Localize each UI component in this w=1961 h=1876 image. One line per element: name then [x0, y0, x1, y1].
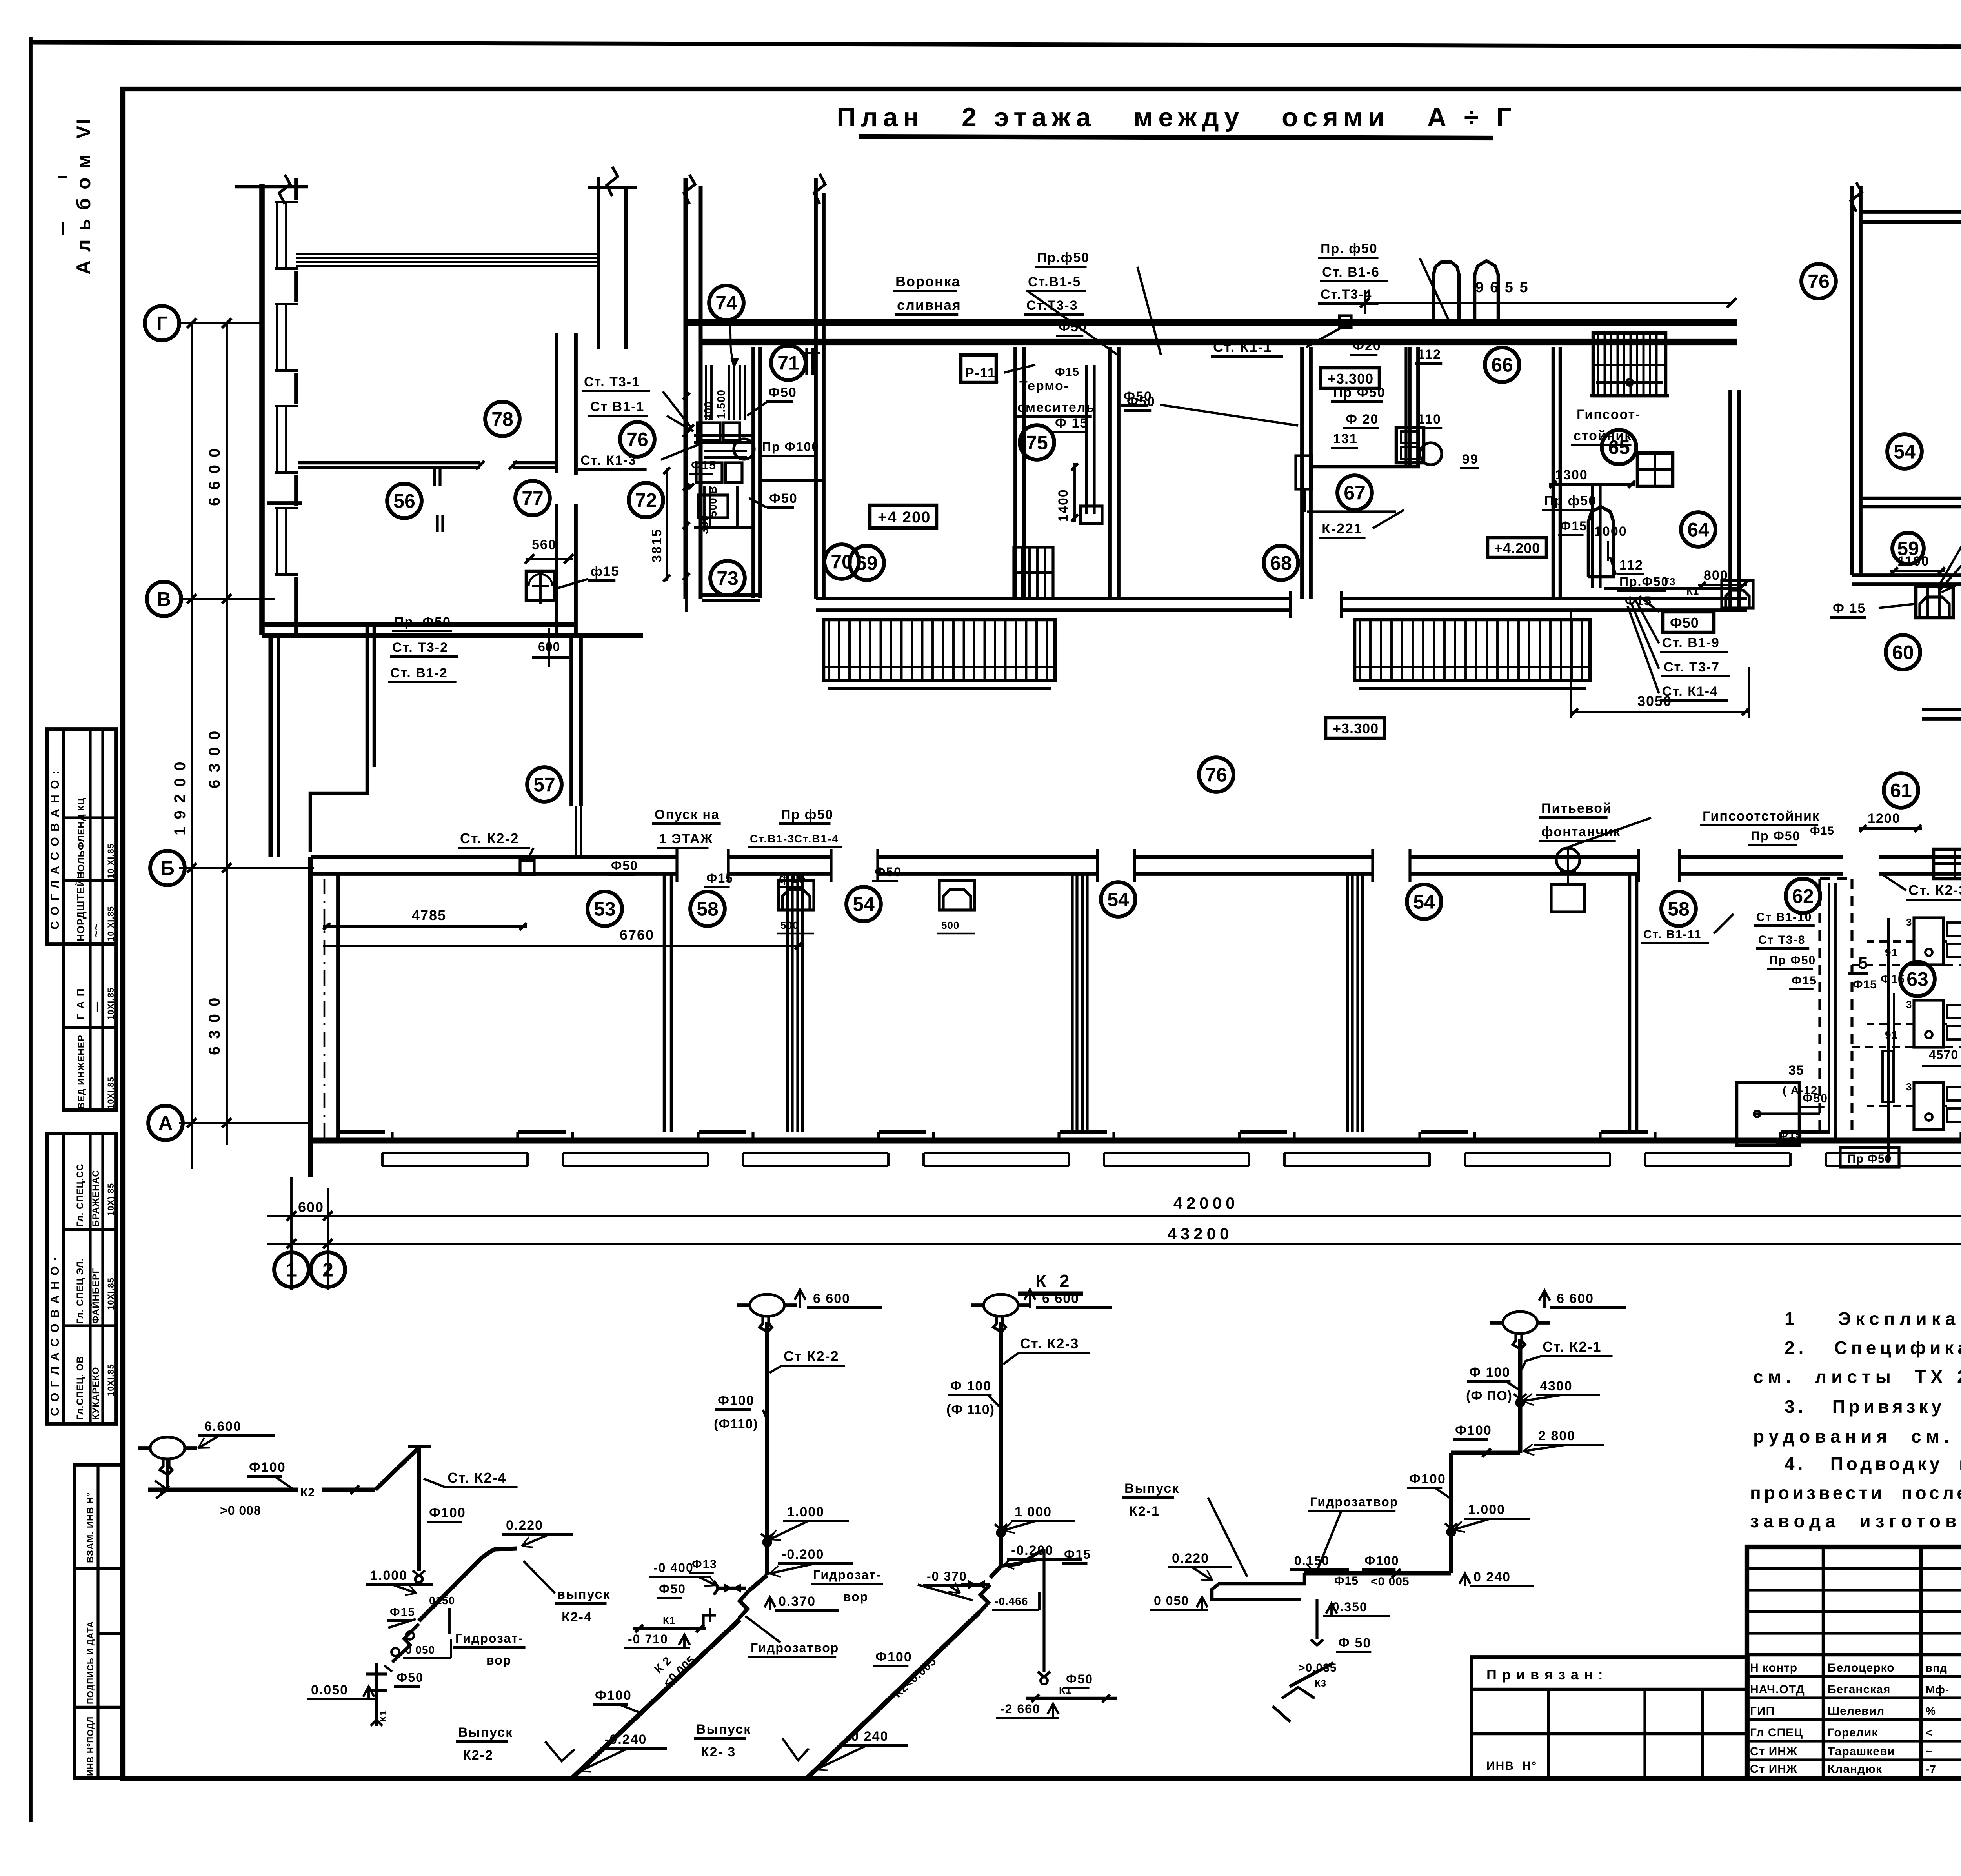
svg-text:Ф 100: Ф 100 — [950, 1379, 991, 1394]
vestibule 57 left wall — [269, 635, 273, 857]
corridor top wall lower line — [702, 339, 1737, 345]
K2-3 base valve bowtie — [990, 1566, 1001, 1578]
K2-4 main horizontal pipe — [148, 1488, 298, 1492]
svg-text:С О Г Л А С О В А Н О ·: С О Г Л А С О В А Н О · — [49, 1256, 62, 1416]
sanitary pipes cluster rooms 71-72 — [697, 423, 720, 440]
svg-text:ПОДПИСЬ И ДАТА: ПОДПИСЬ И ДАТА — [85, 1621, 95, 1704]
svg-text:58: 58 — [697, 898, 719, 920]
svg-text:Ст В1-1: Ст В1-1 — [590, 399, 644, 414]
svg-text:74: 74 — [715, 292, 737, 314]
bottom wall of upper-left block / axis V wall — [262, 622, 576, 627]
west wall room 69 — [814, 347, 818, 599]
beam band lines — [296, 253, 598, 255]
svg-text:6 600: 6 600 — [1042, 1291, 1079, 1306]
partition 58|54 plumbing wall — [786, 874, 789, 1132]
svg-text:К-221: К-221 — [1322, 520, 1363, 537]
axis line V — [179, 598, 275, 600]
wall 72 zone east — [751, 347, 755, 598]
left wall window sills — [276, 202, 278, 269]
svg-text:произвести после его устано: произвести после его установки согласно … — [1750, 1483, 1961, 1503]
axis circle 2 — [311, 1252, 345, 1287]
svg-text:К2: К2 — [300, 1486, 315, 1499]
svg-text:(Ф110): (Ф110) — [714, 1417, 758, 1432]
bottom wall right block — [1852, 573, 1961, 577]
svg-text:ВЗАМ. ИНВ Н°: ВЗАМ. ИНВ Н° — [85, 1492, 96, 1563]
svg-text:0.220: 0.220 — [506, 1518, 543, 1533]
K2-2 trap zigzag — [739, 1591, 749, 1618]
svg-text:Пр.ф50: Пр.ф50 — [1037, 250, 1090, 265]
svg-text:Ф 50: Ф 50 — [1338, 1636, 1371, 1650]
K2-2 base branch with valve — [749, 1575, 767, 1591]
window tick marks — [433, 468, 436, 486]
upper-left block outer walls — [259, 184, 265, 635]
sink fixture 64 — [1722, 580, 1753, 608]
svg-text:Ст. К2-3: Ст. К2-3 — [1908, 882, 1961, 898]
svg-text:Гипсоотстойник: Гипсоотстойник — [1703, 809, 1820, 824]
K2-3 riser stack — [999, 1322, 1003, 1566]
K2-4 K1 riser — [375, 1663, 378, 1726]
svg-text:Выпуск: Выпуск — [696, 1722, 751, 1737]
svg-text:75: 75 — [1026, 432, 1048, 454]
svg-text:Ф100: Ф100 — [595, 1688, 632, 1703]
balcony hatch west — [824, 620, 1055, 681]
svg-text:110: 110 — [1417, 412, 1441, 427]
boiler room 67 — [1433, 262, 1459, 326]
svg-text:Кландюк: Кландюк — [1828, 1763, 1882, 1776]
svg-text:Ф20: Ф20 — [1353, 338, 1381, 353]
svg-text:П р и в я з а н :: П р и в я з а н : — [1486, 1667, 1604, 1683]
svg-text:Ст Т3-8: Ст Т3-8 — [1758, 933, 1805, 946]
axis circle B — [150, 851, 185, 885]
stamp block 1 soglasovano — [47, 729, 116, 944]
svg-text:99: 99 — [1462, 452, 1479, 467]
K2-3 outfall diagonal — [806, 1612, 980, 1779]
privyazan table — [1472, 1657, 1748, 1780]
svg-text:Ф 100: Ф 100 — [1469, 1365, 1510, 1380]
svg-text:Т3: Т3 — [1663, 576, 1675, 588]
svg-text:Пр Ф100: Пр Ф100 — [762, 440, 819, 454]
svg-text:Ст ИНЖ: Ст ИНЖ — [1750, 1763, 1797, 1776]
room circle 68 — [1264, 546, 1298, 580]
svg-text:Ст.В1-4: Ст.В1-4 — [794, 833, 839, 845]
svg-text:54: 54 — [1413, 891, 1435, 913]
svg-text:ФАЙНБЕРГ: ФАЙНБЕРГ — [90, 1268, 101, 1324]
svg-text:10X) 85: 10X) 85 — [106, 1183, 116, 1216]
wall under stair — [1590, 394, 1669, 398]
svg-text:73: 73 — [717, 568, 739, 590]
room circle 62 — [1786, 879, 1820, 913]
svg-text:35: 35 — [1788, 1063, 1804, 1078]
svg-text:2. Спецификацию технологиче: 2. Спецификацию технологического оборудо… — [1785, 1337, 1961, 1358]
svg-text:К 2: К 2 — [1035, 1271, 1073, 1291]
svg-text:62: 62 — [1792, 885, 1814, 907]
svg-text:Ф 20: Ф 20 — [1346, 412, 1379, 427]
break mark wall A top — [607, 167, 618, 196]
svg-text:10 XI.85: 10 XI.85 — [106, 906, 116, 941]
svg-text:Р-11: Р-11 — [965, 366, 996, 380]
dashed service duct room 62 — [1818, 879, 1821, 1137]
svg-text:Ст К2-2: Ст К2-2 — [784, 1348, 839, 1364]
dashed pipes lab — [1852, 964, 1961, 966]
svg-text:Н контр: Н контр — [1750, 1661, 1797, 1674]
svg-text:Ф15: Ф15 — [1779, 1128, 1803, 1141]
K2-1 dim 4300 — [1517, 1399, 1524, 1406]
svg-text:Ф50: Ф50 — [1059, 320, 1087, 335]
title block outline — [1747, 1547, 1961, 1779]
svg-text:Ф15: Ф15 — [1334, 1574, 1359, 1587]
east wall room 75 — [1108, 347, 1112, 599]
sheet outer border top — [31, 42, 1961, 48]
wall stub room56 left — [267, 501, 302, 505]
svg-text:1: 1 — [286, 1259, 297, 1281]
svg-text:3. Привязку и расстановку: 3. Привязку и расстановку технологическо… — [1785, 1396, 1961, 1417]
svg-text:Пр.Ф50: Пр.Ф50 — [1619, 575, 1669, 589]
svg-text:Ф50: Ф50 — [875, 865, 902, 879]
svg-text:57: 57 — [533, 774, 555, 796]
svg-text:Горелик: Горелик — [1828, 1726, 1878, 1739]
bottom dim line 42000 — [267, 1215, 1961, 1217]
svg-text:Ф13: Ф13 — [692, 1558, 717, 1571]
K2-4 drain to K1 — [392, 1624, 419, 1662]
wall west of room 65 block — [1552, 347, 1555, 599]
window tick on corridor wall — [805, 348, 808, 375]
dim 4785 — [323, 925, 527, 928]
lower wing top wall segments — [311, 855, 677, 859]
inner wall between rooms 54 — [1861, 497, 1961, 500]
svg-text:Ф50: Ф50 — [1803, 1092, 1828, 1105]
svg-text:смеситель: смеситель — [1017, 400, 1095, 415]
svg-text:Пр. Ф50: Пр. Ф50 — [394, 615, 451, 630]
label Pr F50 bottom — [1840, 1148, 1899, 1167]
svg-text:НАЧ.ОТД: НАЧ.ОТД — [1750, 1683, 1805, 1696]
sheet outer border left — [29, 37, 33, 1822]
svg-text:66: 66 — [1491, 354, 1513, 376]
partition 54|54 b — [1346, 874, 1349, 1132]
svg-text:Гидрозат-: Гидрозат- — [455, 1631, 524, 1645]
K2-1 vertical drop — [1449, 1453, 1453, 1573]
break mark left wall top — [279, 175, 290, 204]
svg-text:72: 72 — [635, 489, 657, 511]
svg-text:4300: 4300 — [1540, 1379, 1573, 1394]
east wall rooms 64 — [1728, 390, 1732, 610]
stairwell hatch block — [1593, 333, 1666, 396]
svg-text:Тарашкеви: Тарашкеви — [1828, 1745, 1895, 1758]
svg-text:Ф100: Ф100 — [875, 1650, 912, 1665]
K2-4 outfall to 0.220 — [419, 1548, 517, 1621]
svg-text:1400: 1400 — [1056, 489, 1071, 522]
svg-text:-0.200: -0.200 — [782, 1547, 824, 1562]
svg-text:Ст. К2-4: Ст. К2-4 — [448, 1470, 506, 1486]
svg-text:1300: 1300 — [1555, 468, 1588, 482]
svg-text:1 9 2 0 0: 1 9 2 0 0 — [171, 760, 189, 835]
dim 1300 — [1549, 483, 1635, 486]
svg-text:-0 240: -0 240 — [846, 1729, 888, 1744]
svg-text:План 2 этажа между осями: План 2 этажа между осями А ÷ Г — [837, 102, 1516, 132]
svg-text:Ф15: Ф15 — [1560, 519, 1587, 533]
K2-1 level 1.000 — [1448, 1528, 1455, 1536]
svg-text:300: 300 — [698, 515, 710, 534]
K2-2 outfall diagonal — [571, 1619, 740, 1779]
svg-text:Белоцерко: Белоцерко — [1828, 1661, 1895, 1674]
svg-text:112: 112 — [1619, 558, 1643, 573]
svg-text:Гл. СПЕЦ ЭЛ.: Гл. СПЕЦ ЭЛ. — [75, 1258, 85, 1324]
break mark right block wall — [1851, 182, 1862, 212]
svg-text:(Ф ПО): (Ф ПО) — [1466, 1388, 1512, 1403]
axis circle A — [148, 1106, 183, 1140]
svg-text:6 600: 6 600 — [1557, 1291, 1594, 1306]
svg-text:69: 69 — [856, 552, 878, 574]
room circle 54 lw1 — [846, 887, 881, 921]
room circle 60 — [1886, 635, 1920, 670]
svg-text:Ф15: Ф15 — [691, 459, 717, 472]
svg-text:43200: 43200 — [1168, 1225, 1233, 1243]
lab benches room 63 grid — [1914, 918, 1943, 965]
svg-text:Ст. К1-3: Ст. К1-3 — [580, 453, 637, 468]
level mark +3.300 room 67 — [1321, 368, 1379, 388]
svg-text:Пр. ф50: Пр. ф50 — [1321, 241, 1378, 256]
axis circle V — [147, 582, 181, 616]
stair arrow — [1596, 381, 1663, 384]
svg-text:-7: -7 — [1926, 1763, 1936, 1775]
svg-text:Беганская: Беганская — [1828, 1683, 1890, 1696]
level mark +4 200 room 69 — [870, 505, 937, 528]
svg-text:-0 400: -0 400 — [653, 1561, 694, 1575]
svg-text:В: В — [157, 588, 171, 610]
svg-text:К1: К1 — [1686, 585, 1699, 597]
svg-text:53: 53 — [594, 898, 616, 920]
svg-text:ИНВ Н°ПОДЛ: ИНВ Н°ПОДЛ — [85, 1716, 95, 1776]
svg-text:91: 91 — [1885, 946, 1898, 959]
K2-4 valve on riser — [415, 1576, 422, 1583]
svg-text:К1: К1 — [378, 1710, 389, 1722]
svg-text:Ст ИНЖ: Ст ИНЖ — [1750, 1745, 1797, 1758]
svg-text:+3.300: +3.300 — [1333, 721, 1379, 737]
svg-text:А: А — [158, 1112, 173, 1134]
riser K2-4 vent stack — [150, 1437, 185, 1459]
svg-text:Ст.В1-5: Ст.В1-5 — [1028, 275, 1081, 289]
svg-text:Ф15: Ф15 — [1055, 366, 1079, 378]
K2-3 trap zigzag — [980, 1585, 990, 1612]
svg-text:Ф100: Ф100 — [249, 1460, 286, 1475]
riser K2-2 vent stack — [750, 1294, 784, 1316]
svg-text:Ф50: Ф50 — [768, 385, 797, 400]
pipe riser room 67 — [1404, 347, 1407, 467]
svg-text:Ст.Т3-4: Ст.Т3-4 — [1321, 287, 1372, 302]
svg-text:Ф100: Ф100 — [718, 1393, 755, 1408]
svg-text:-2 660: -2 660 — [1000, 1702, 1041, 1716]
riser K2-3 vent stack — [984, 1294, 1018, 1316]
svg-text:Ф50: Ф50 — [769, 491, 798, 506]
svg-text:Пр ф50: Пр ф50 — [1544, 493, 1597, 508]
room 60 bottom wall — [1922, 708, 1961, 711]
room circle 54 lw3 — [1407, 884, 1441, 919]
dim line 63 — [1922, 1065, 1961, 1067]
svg-text:Гл. СПЕЦ.СС: Гл. СПЕЦ.СС — [75, 1164, 85, 1227]
dim 1400 vertical — [1073, 463, 1076, 522]
svg-text:Г: Г — [156, 313, 167, 335]
K2-1 gidrozatvor trap left — [1212, 1573, 1304, 1599]
room circle 66 — [1485, 348, 1519, 382]
svg-text:ВОЛЬФЛЕНД КЦ: ВОЛЬФЛЕНД КЦ — [76, 797, 87, 879]
svg-text:+4.200: +4.200 — [1494, 540, 1540, 556]
svg-text:64: 64 — [1687, 519, 1709, 541]
K2-2 K1 stub — [633, 1627, 706, 1630]
svg-text:сливная: сливная — [897, 297, 961, 313]
room circle 53 — [588, 892, 622, 926]
left wall top tee — [235, 185, 308, 189]
svg-text:54: 54 — [853, 893, 875, 915]
sink fixture room 54lw — [939, 881, 975, 910]
svg-text:КУКАРЕКО: КУКАРЕКО — [91, 1367, 101, 1420]
svg-text:4570: 4570 — [1929, 1048, 1958, 1062]
svg-text:Ф100: Ф100 — [1409, 1472, 1446, 1487]
svg-text:112: 112 — [1417, 347, 1441, 362]
svg-text:Пр Ф50: Пр Ф50 — [1751, 829, 1800, 843]
level mark +4.200 right — [1488, 538, 1546, 557]
svg-text:-0 370: -0 370 — [927, 1569, 967, 1583]
svg-text:Шелевил: Шелевил — [1828, 1705, 1885, 1718]
svg-text:-0.240: -0.240 — [604, 1732, 647, 1747]
svg-text:1100: 1100 — [1897, 554, 1930, 569]
svg-text:4785: 4785 — [412, 907, 446, 923]
room circle 72 — [629, 483, 663, 517]
bath room 64 — [1588, 507, 1614, 577]
stamp block 3 soglasovano 2 — [47, 1134, 116, 1424]
svg-text:Ф100: Ф100 — [1364, 1554, 1399, 1568]
wall A right of room 78 — [597, 177, 600, 349]
svg-text:Выпуск: Выпуск — [458, 1725, 513, 1740]
svg-text:ВЕД ИНЖЕНЕР: ВЕД ИНЖЕНЕР — [76, 1035, 87, 1109]
drinking fountain fixture — [526, 571, 555, 600]
svg-text:10XI.85: 10XI.85 — [106, 987, 116, 1020]
svg-text:-0.466: -0.466 — [995, 1595, 1028, 1607]
svg-text:Ф 15: Ф 15 — [1055, 416, 1088, 431]
svg-text:Гидрозат-: Гидрозат- — [813, 1568, 881, 1582]
lower wing bottom wall inner segments — [338, 1130, 385, 1134]
west wall right block — [1850, 186, 1854, 575]
room circle 54 right — [1887, 434, 1922, 469]
vestibule 57 right wall — [569, 635, 573, 806]
svg-text:60: 60 — [1892, 642, 1914, 664]
svg-text:Пр Ф50: Пр Ф50 — [1847, 1152, 1892, 1165]
small stair room 69 — [1014, 547, 1053, 598]
svg-text:6.600: 6.600 — [204, 1419, 242, 1434]
wall under room 73 — [702, 593, 760, 597]
svg-text:67: 67 — [1344, 482, 1366, 504]
svg-text:76: 76 — [1808, 271, 1830, 293]
svg-text:Ст. К2-3: Ст. К2-3 — [1020, 1336, 1079, 1352]
svg-text:3: 3 — [1906, 916, 1912, 928]
svg-text:42000: 42000 — [1173, 1194, 1239, 1212]
room circle 78 — [485, 402, 520, 436]
room circle 56 — [387, 484, 422, 518]
svg-text:БРАЖЕНАС: БРАЖЕНАС — [91, 1170, 101, 1227]
svg-text:Ст. Т3-7: Ст. Т3-7 — [1664, 660, 1720, 675]
svg-text:Ст. К2-2: Ст. К2-2 — [460, 830, 519, 846]
svg-text:1000: 1000 — [1594, 524, 1627, 539]
svg-text:0.220: 0.220 — [1172, 1551, 1209, 1566]
room circle 54 lw2 — [1101, 882, 1135, 917]
svg-text:2 800: 2 800 — [1538, 1428, 1575, 1443]
partition 54|58 right — [1628, 874, 1632, 1132]
svg-text:54: 54 — [1894, 441, 1916, 463]
svg-text:76: 76 — [1205, 764, 1227, 786]
svg-text:Выпуск: Выпуск — [1124, 1481, 1179, 1496]
svg-text:3050: 3050 — [1637, 693, 1672, 709]
svg-text:Ф 15: Ф 15 — [1833, 601, 1866, 616]
svg-text:К1: К1 — [1059, 1684, 1071, 1696]
svg-text:1 000: 1 000 — [1015, 1505, 1052, 1519]
K2-2 level 1.000 valve — [764, 1539, 771, 1546]
K2-3 level 1 000 valve — [997, 1529, 1004, 1536]
inner wall room78/56 — [298, 461, 480, 465]
svg-text:Ст.В1-3: Ст.В1-3 — [750, 833, 795, 845]
svg-text:стойник: стойник — [1574, 428, 1632, 443]
svg-text:>0 008: >0 008 — [220, 1503, 261, 1518]
partition 54|54 a — [1071, 874, 1073, 1132]
svg-text:вор: вор — [486, 1653, 511, 1667]
room circle 58 lower-left — [690, 892, 725, 926]
corridor top wall upper line — [685, 319, 1737, 326]
svg-text:вор: вор — [843, 1590, 868, 1604]
svg-text:ИНВ Н°: ИНВ Н° — [1486, 1760, 1537, 1772]
svg-text:Ст. В1-2: Ст. В1-2 — [390, 666, 448, 681]
svg-text:см. листы ТХ 2-10.: см. листы ТХ 2-10. — [1753, 1367, 1961, 1387]
svg-text:68: 68 — [1270, 552, 1292, 574]
top wall right block — [1861, 210, 1961, 214]
vestibule 57 inner wall step — [366, 624, 369, 767]
svg-text:<: < — [1926, 1727, 1932, 1739]
svg-text:10XI.85: 10XI.85 — [106, 1364, 116, 1396]
svg-text:78: 78 — [491, 408, 513, 430]
svg-text:91: 91 — [1885, 1029, 1898, 1041]
dim 3815 vertical — [666, 468, 668, 581]
room circle 76 corridor right — [1801, 264, 1836, 298]
svg-text:500: 500 — [780, 919, 799, 931]
room circle 64 — [1681, 512, 1715, 547]
svg-text:Ст. Т3-2: Ст. Т3-2 — [392, 640, 448, 655]
level mark +3.300 corridor — [1326, 718, 1384, 738]
svg-text:6760: 6760 — [620, 927, 654, 943]
room circle 63 — [1900, 962, 1935, 996]
svg-text:Гипсоот-: Гипсоот- — [1577, 407, 1641, 422]
svg-text:6 3 0 0: 6 3 0 0 — [206, 996, 223, 1055]
lower wing window sills — [391, 1132, 393, 1141]
svg-text:Г А П: Г А П — [75, 988, 87, 1020]
water heater room 66 — [1475, 261, 1498, 326]
axis circle 1 — [274, 1252, 309, 1287]
svg-text:2: 2 — [322, 1259, 333, 1281]
svg-text:ф15: ф15 — [779, 871, 806, 885]
svg-text:Пр ф50: Пр ф50 — [781, 807, 833, 822]
svg-text:10 XI.85: 10 XI.85 — [106, 843, 116, 879]
svg-text:<0 005: <0 005 — [1371, 1575, 1410, 1588]
axis line A — [179, 1122, 312, 1124]
svg-text:Мф-: Мф- — [1926, 1683, 1949, 1696]
K2-1 elbow to left — [1451, 1451, 1520, 1455]
axis dash line lower wing left — [324, 879, 326, 1142]
label f50 bottom 64 — [1663, 612, 1714, 632]
svg-text:Ст. Т3-1: Ст. Т3-1 — [584, 375, 640, 389]
svg-text:500 В: 500 В — [707, 486, 719, 517]
small box on wall St K1-1 — [1339, 316, 1351, 328]
svg-text:0.050: 0.050 — [311, 1683, 348, 1698]
svg-text:Термо-: Термо- — [1019, 378, 1069, 393]
svg-text:Пр Ф50: Пр Ф50 — [1333, 385, 1386, 400]
wall right of room77 — [555, 333, 558, 473]
wall 68 west — [1300, 347, 1304, 599]
svg-text:Гидрозатвор: Гидрозатвор — [751, 1641, 839, 1655]
